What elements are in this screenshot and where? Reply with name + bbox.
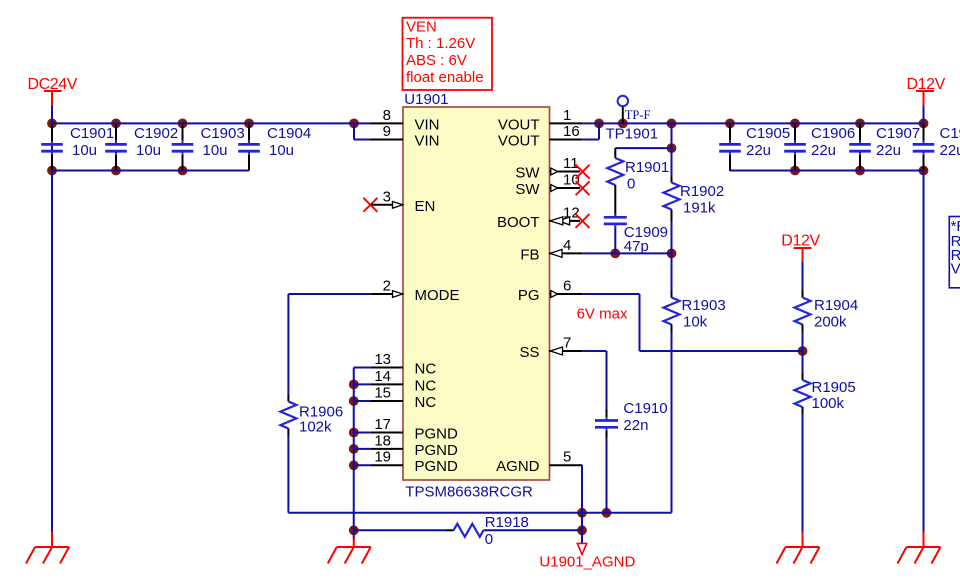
svg-text:191k: 191k bbox=[683, 199, 716, 216]
svg-text:0: 0 bbox=[485, 531, 493, 548]
svg-text:U1901: U1901 bbox=[404, 91, 448, 108]
resistor R1905 bbox=[795, 351, 811, 547]
svg-text:EN: EN bbox=[415, 198, 436, 215]
svg-text:VIN: VIN bbox=[415, 116, 440, 133]
wire FB bbox=[550, 252, 672, 254]
pin arrow SS bbox=[550, 347, 562, 355]
svg-text:6V max: 6V max bbox=[577, 305, 628, 322]
svg-text:10: 10 bbox=[563, 172, 580, 189]
test point TP1901 bbox=[618, 96, 628, 124]
ground (input) bbox=[26, 547, 69, 564]
wire R1918 line left bbox=[354, 529, 446, 531]
wire pin8 stub bbox=[370, 122, 403, 124]
svg-text:SS: SS bbox=[519, 344, 539, 361]
svg-text:19: 19 bbox=[374, 449, 391, 466]
svg-text:VIN: VIN bbox=[415, 133, 440, 150]
svg-text:17: 17 bbox=[374, 416, 391, 433]
svg-text:D12V: D12V bbox=[781, 232, 820, 249]
wire output top rail bbox=[582, 122, 923, 124]
svg-text:NC: NC bbox=[415, 361, 437, 378]
svg-text:5: 5 bbox=[563, 449, 571, 466]
wire D12V stem bbox=[923, 106, 925, 123]
wire pin9 branch bbox=[354, 123, 403, 139]
junctions misc bbox=[349, 143, 808, 535]
svg-text:10u: 10u bbox=[72, 142, 97, 159]
pin arrow SW10 bbox=[551, 185, 558, 192]
wire SW pin10 stub bbox=[550, 187, 581, 189]
svg-text:R1901: R1901 bbox=[625, 159, 669, 176]
pin arrow BOOT outer bbox=[559, 217, 570, 225]
power port D12V (top) bbox=[907, 76, 946, 106]
wire pin16 bbox=[550, 123, 600, 139]
resistor R1903 bbox=[664, 253, 680, 512]
resistor R1902 bbox=[664, 123, 680, 253]
capacitor C1903 bbox=[172, 123, 194, 170]
svg-text:PGND: PGND bbox=[415, 426, 459, 443]
power port DC24V bbox=[28, 76, 78, 106]
wire R1906 to AGND line bbox=[287, 436, 289, 513]
svg-text:1: 1 bbox=[563, 107, 571, 124]
U1901 left pin numbers bbox=[374, 107, 391, 466]
power port D12V (divider) bbox=[781, 232, 820, 262]
pin arrow PG bbox=[551, 291, 558, 298]
svg-text:ABS : 6V: ABS : 6V bbox=[406, 52, 467, 69]
svg-text:47p: 47p bbox=[624, 238, 649, 255]
svg-text:C1905: C1905 bbox=[746, 125, 790, 142]
svg-text:13: 13 bbox=[374, 351, 391, 368]
wire AGND pin5 bbox=[550, 465, 583, 513]
wire NC and PGND pin stubs bbox=[354, 368, 403, 466]
svg-text:BOOT: BOOT bbox=[497, 214, 540, 231]
svg-text:11: 11 bbox=[563, 155, 579, 172]
svg-text:22u: 22u bbox=[940, 142, 960, 159]
resistor R1906 bbox=[280, 395, 296, 436]
ground (divider) bbox=[777, 547, 820, 564]
svg-text:C1906: C1906 bbox=[811, 125, 855, 142]
svg-text:10u: 10u bbox=[136, 142, 161, 159]
svg-text:TP-F: TP-F bbox=[625, 108, 651, 122]
svg-text:TP1901: TP1901 bbox=[606, 126, 659, 143]
U1901 left pin names bbox=[415, 116, 460, 475]
svg-text:NC: NC bbox=[415, 377, 437, 394]
no-connect X on BOOT bbox=[576, 214, 590, 228]
no-connect X on EN bbox=[363, 198, 377, 212]
svg-text:VOUT: VOUT bbox=[498, 116, 540, 133]
svg-text:SW: SW bbox=[515, 181, 540, 198]
junctions on NC-PGND bus bbox=[349, 380, 359, 471]
svg-text:4: 4 bbox=[563, 237, 571, 254]
capacitor C1904 bbox=[238, 123, 260, 170]
svg-text:10u: 10u bbox=[203, 142, 228, 159]
capacitor C1908 bbox=[913, 123, 935, 171]
wire bus ground stub bbox=[353, 530, 355, 547]
pin arrow EN bbox=[393, 201, 403, 208]
wire SW pin11 stub bbox=[550, 171, 581, 173]
U1901 right pin numbers bbox=[563, 107, 580, 466]
VEN enable note box bbox=[403, 18, 493, 90]
wire input top rail bbox=[52, 122, 370, 124]
wire output right vertical bbox=[923, 171, 925, 548]
svg-text:10k: 10k bbox=[683, 314, 708, 331]
svg-text:7: 7 bbox=[563, 335, 571, 352]
pin arrow BOOT inner bbox=[550, 217, 563, 225]
svg-text:R1918: R1918 bbox=[485, 514, 529, 531]
svg-text:22u: 22u bbox=[811, 142, 836, 159]
svg-text:R1903: R1903 bbox=[682, 297, 726, 314]
svg-text:FB: FB bbox=[520, 246, 539, 263]
svg-text:0: 0 bbox=[627, 175, 635, 192]
svg-text:Th : 1.26V: Th : 1.26V bbox=[406, 35, 475, 52]
wire DC24V stem bbox=[51, 106, 53, 123]
wire MODE vertical bbox=[287, 294, 289, 395]
wire pin1 stub bbox=[550, 122, 583, 124]
svg-text:PGND: PGND bbox=[415, 458, 459, 475]
wire EN stub bbox=[371, 204, 403, 206]
pin arrow MODE bbox=[393, 291, 403, 298]
no-connect X on SW11 bbox=[576, 165, 590, 179]
svg-text:102k: 102k bbox=[299, 419, 332, 436]
capacitor C1906 bbox=[784, 123, 806, 171]
svg-text:MODE: MODE bbox=[415, 287, 460, 304]
capacitor C1909 bbox=[604, 214, 627, 254]
net flag U1901_AGND bbox=[539, 530, 635, 570]
junctions top rails bbox=[47, 119, 928, 129]
svg-text:NC: NC bbox=[415, 394, 437, 411]
resistor R1901 bbox=[607, 148, 623, 217]
svg-text:2: 2 bbox=[383, 278, 391, 295]
svg-text:3: 3 bbox=[383, 189, 391, 206]
svg-text:V1: V1 bbox=[951, 261, 960, 278]
svg-text:10u: 10u bbox=[269, 142, 294, 159]
ground (PGND bus) bbox=[328, 547, 371, 564]
svg-text:C1903: C1903 bbox=[201, 125, 245, 142]
wire AGND riser bbox=[581, 513, 583, 531]
pin arrow SW11 bbox=[551, 168, 558, 175]
capacitor C1910 bbox=[595, 410, 618, 513]
capacitor C1905 bbox=[719, 123, 741, 171]
wire output bottom rail bbox=[730, 170, 924, 172]
svg-text:8: 8 bbox=[383, 107, 391, 124]
svg-text:16: 16 bbox=[563, 123, 580, 140]
op-amp U1901 TPSM86638RCGR body bbox=[403, 107, 550, 480]
svg-text:9: 9 bbox=[383, 123, 391, 140]
U1901 right pin names bbox=[496, 116, 540, 475]
svg-text:22u: 22u bbox=[746, 142, 771, 159]
svg-text:R1902: R1902 bbox=[680, 183, 724, 200]
svg-text:15: 15 bbox=[374, 385, 391, 402]
svg-text:PG: PG bbox=[518, 287, 540, 304]
wire AGND line bbox=[288, 512, 671, 514]
wire PG bbox=[550, 294, 803, 351]
resistor R1904 bbox=[795, 262, 811, 351]
svg-text:200k: 200k bbox=[814, 314, 847, 331]
svg-text:float enable: float enable bbox=[406, 69, 484, 86]
junctions bottom rails bbox=[47, 166, 928, 176]
svg-text:22u: 22u bbox=[876, 142, 901, 159]
svg-text:TPSM86638RCGR: TPSM86638RCGR bbox=[405, 484, 533, 501]
svg-text:6: 6 bbox=[563, 278, 571, 295]
svg-text:R1905: R1905 bbox=[812, 379, 856, 396]
svg-text:18: 18 bbox=[374, 432, 391, 449]
wire input left vertical bbox=[51, 123, 53, 531]
capacitor C1901 bbox=[41, 123, 63, 170]
wire SS bbox=[550, 351, 607, 410]
wire R1901 top link bbox=[615, 147, 671, 149]
svg-text:C1904: C1904 bbox=[267, 125, 311, 142]
wire NC-PGND bus bbox=[353, 368, 355, 531]
svg-text:PGND: PGND bbox=[415, 442, 459, 459]
svg-text:C1908: C1908 bbox=[940, 125, 960, 142]
svg-text:C1902: C1902 bbox=[134, 125, 178, 142]
svg-text:C1910: C1910 bbox=[623, 400, 667, 417]
wire MODE bbox=[288, 293, 403, 295]
wire BOOT pin12 stub bbox=[550, 220, 581, 222]
wire input left vertical red stub bbox=[51, 532, 53, 548]
svg-text:SW: SW bbox=[515, 165, 540, 182]
svg-text:100k: 100k bbox=[812, 395, 845, 412]
capacitor C1902 bbox=[105, 123, 127, 170]
svg-text:R1904: R1904 bbox=[814, 297, 858, 314]
svg-text:22n: 22n bbox=[623, 417, 648, 434]
svg-text:14: 14 bbox=[374, 368, 391, 385]
note box (clipped) bbox=[949, 217, 960, 288]
svg-text:VEN: VEN bbox=[406, 18, 437, 35]
resistor R1918 bbox=[446, 524, 583, 537]
pin arrow FB bbox=[550, 249, 562, 257]
wire input bottom rail bbox=[52, 170, 249, 172]
svg-text:VOUT: VOUT bbox=[498, 133, 540, 150]
capacitor C1907 bbox=[849, 123, 871, 171]
svg-text:C1907: C1907 bbox=[876, 125, 920, 142]
svg-text:C1901: C1901 bbox=[70, 125, 114, 142]
ground (output) bbox=[898, 547, 941, 564]
svg-text:U1901_AGND: U1901_AGND bbox=[539, 553, 635, 570]
svg-text:AGND: AGND bbox=[496, 458, 540, 475]
no-connect X on SW10 bbox=[576, 181, 590, 195]
